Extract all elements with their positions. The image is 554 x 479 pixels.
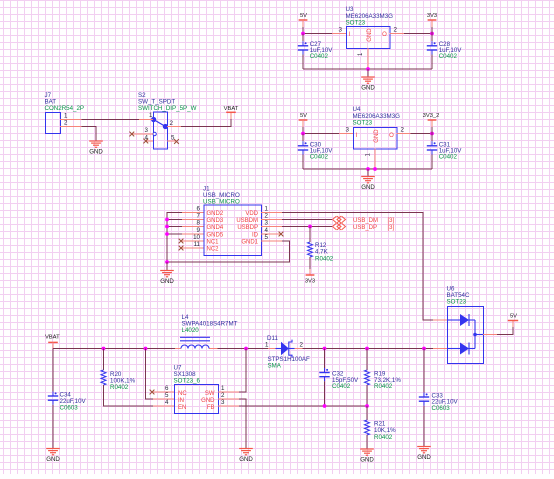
- svg-text:GND: GND: [46, 456, 60, 463]
- wire C31 up: [431, 134, 433, 142]
- R21 labels: [374, 421, 396, 441]
- wire J7 pin2 to gnd: [82, 127, 97, 142]
- resistor R19: [365, 370, 370, 385]
- svg-text:C0402: C0402: [310, 53, 329, 60]
- junction R19 top: [365, 347, 369, 351]
- U4 pin 2: [397, 127, 411, 134]
- C34 labels: [60, 392, 87, 412]
- svg-text:GND: GND: [417, 454, 431, 461]
- svg-text:GND2: GND2: [207, 211, 224, 217]
- capacitor C31: [427, 141, 437, 154]
- power port 5V (output): [508, 313, 518, 327]
- no-erc J1 NC2: [179, 246, 184, 251]
- wire R20 to EN: [104, 385, 154, 406]
- wire FB net: [239, 405, 367, 407]
- junction U4 pin1 rail: [373, 167, 377, 171]
- svg-text:2: 2: [170, 120, 174, 127]
- junction R12 tap: [308, 225, 312, 229]
- junction IN drop: [144, 347, 148, 351]
- junction C32 top: [323, 347, 327, 351]
- S2 pin 3 no-erc: [129, 127, 153, 136]
- wire C27 up: [302, 34, 304, 42]
- svg-text:2: 2: [401, 127, 405, 134]
- junction C33 top: [422, 347, 426, 351]
- J1 pin 10 (NC1): [182, 234, 220, 245]
- svg-text:R0402: R0402: [315, 255, 334, 262]
- svg-text:1: 1: [265, 206, 269, 213]
- wire USBDP to port: [282, 226, 332, 228]
- resistor R12: [308, 242, 313, 257]
- svg-text:GND: GND: [201, 398, 215, 404]
- wire R19 to FB: [366, 385, 368, 406]
- connector J1 USB_MICRO: [204, 205, 262, 256]
- junction U4 gnd stem: [366, 167, 370, 171]
- wire R21 to gnd: [366, 435, 368, 449]
- J1 labels: [203, 186, 240, 206]
- svg-text:3V3: 3V3: [305, 278, 315, 284]
- wire J7 pin1 to S2 pin1: [82, 119, 140, 121]
- wire C33 to gnd: [423, 406, 425, 447]
- wire J1 GND1 loop: [167, 241, 290, 262]
- wire C30 down: [302, 155, 304, 170]
- wire bus to ground: [166, 262, 168, 271]
- U7 labels: [174, 365, 201, 385]
- svg-text:C0603: C0603: [432, 405, 451, 412]
- C31 labels: [439, 142, 463, 161]
- connector J7: [46, 113, 61, 134]
- svg-text:C0402: C0402: [439, 53, 458, 60]
- J1 pin 9 (GND5): [182, 227, 224, 238]
- wire C34 drop: [52, 349, 54, 392]
- R12 labels: [315, 242, 334, 262]
- U4 pin 1 (gnd): [366, 149, 376, 170]
- power port 3V3_2: [423, 113, 440, 134]
- svg-text:R0402: R0402: [374, 383, 393, 390]
- junction bus pin8: [165, 225, 169, 229]
- J1 pin 5 (GND1): [241, 234, 282, 245]
- junction bus pin9: [165, 232, 169, 236]
- junction 5V/C27: [301, 32, 305, 36]
- D11 labels: [265, 335, 310, 370]
- svg-text:GND: GND: [361, 184, 375, 191]
- svg-text:O: O: [389, 133, 394, 139]
- svg-text:5: 5: [165, 392, 169, 399]
- svg-text:USB_DM: USB_DM: [353, 218, 378, 224]
- wire U4 gnd rail: [303, 168, 432, 170]
- wire U3 pin2 to 3V3: [404, 33, 432, 35]
- svg-text:5V: 5V: [510, 313, 517, 319]
- U7 pin 6 (NC) no-erc: [150, 385, 188, 397]
- svg-text:GND5: GND5: [207, 233, 224, 239]
- svg-text:9: 9: [197, 227, 201, 234]
- svg-text:R0402: R0402: [374, 434, 393, 441]
- svg-text:FB: FB: [207, 405, 215, 411]
- svg-text:NC: NC: [178, 391, 187, 397]
- ground U3: [361, 77, 375, 92]
- svg-text:EN: EN: [178, 405, 186, 411]
- U4 labels: [353, 106, 401, 127]
- junction SW node: [244, 347, 248, 351]
- svg-text:3: 3: [265, 220, 269, 227]
- svg-text:5: 5: [171, 135, 175, 142]
- junction C32/FB: [323, 404, 327, 408]
- wire U3 gnd rail: [303, 68, 432, 70]
- wire R19 up: [366, 349, 368, 371]
- svg-text:7: 7: [197, 213, 201, 220]
- svg-text:5: 5: [265, 234, 269, 241]
- S2 pin 2: [167, 120, 181, 127]
- wire R12 up: [309, 227, 311, 243]
- power port VBAT top: [224, 106, 239, 119]
- svg-text:SWITCH_DIP_5P_W: SWITCH_DIP_5P_W: [138, 105, 197, 112]
- junction 5V/C30: [301, 132, 305, 136]
- svg-text:3: 3: [221, 399, 225, 406]
- junction bus pin7: [165, 218, 169, 222]
- wire L4 to D11: [218, 348, 269, 350]
- U3 pin 1 (gnd): [358, 48, 368, 69]
- L4 labels: [182, 314, 238, 334]
- offsheet connector USB_DM: [333, 216, 395, 224]
- offsheet connector USB_DP: [333, 223, 395, 231]
- svg-text:10: 10: [193, 234, 200, 241]
- wire S2 pin2 to VBAT: [181, 119, 231, 127]
- svg-text:GND3: GND3: [207, 218, 224, 224]
- J7 pin 2: [60, 120, 82, 127]
- R19 labels: [374, 370, 401, 390]
- no-erc J1 ID: [279, 232, 284, 237]
- J1 pin 11 (NC2): [182, 241, 220, 252]
- ground U7: [239, 449, 253, 464]
- wire C27 down: [302, 55, 304, 70]
- regulator U3: [347, 27, 391, 49]
- junction 3V3/C28: [430, 32, 434, 36]
- junction gnd bus bottom: [165, 260, 169, 264]
- svg-text:1: 1: [265, 341, 269, 348]
- svg-text:SOT23: SOT23: [353, 120, 373, 127]
- wire D11 to output rail: [303, 348, 434, 350]
- U7 pin 4 (EN): [153, 399, 186, 411]
- S2 pin 5 no-erc: [167, 135, 179, 144]
- svg-text:VDD: VDD: [245, 211, 258, 217]
- wire C32 to FB: [324, 381, 326, 406]
- ground C34: [46, 449, 60, 464]
- wire to gnd U3: [367, 69, 369, 77]
- svg-text:8: 8: [197, 220, 201, 227]
- U3 pin 3: [332, 27, 346, 34]
- svg-text:2: 2: [394, 27, 398, 34]
- wire USBDM to port: [282, 219, 332, 221]
- wire U4 pin2 to 3V3_2: [411, 133, 433, 135]
- J1 pin 4 (ID): [252, 227, 282, 238]
- svg-text:SOT23_6: SOT23_6: [174, 378, 201, 385]
- S2 pin 1: [139, 112, 153, 120]
- junction R20: [102, 347, 106, 351]
- regulator U4: [354, 128, 398, 150]
- C28 labels: [439, 41, 463, 60]
- wire C31 down: [431, 155, 433, 170]
- svg-text:C0402: C0402: [332, 383, 351, 390]
- svg-text:5V: 5V: [300, 13, 307, 19]
- wire 5V to U4 pin3: [303, 127, 339, 134]
- J1 pin 6 (GND2): [182, 206, 224, 217]
- J1 pin 1 (VDD): [245, 206, 282, 217]
- capacitor C27: [298, 41, 308, 54]
- wire C34 to gnd: [52, 405, 54, 449]
- wire VDD to U6: [282, 213, 433, 321]
- wire C33 drop: [423, 349, 425, 393]
- svg-text:U3: U3: [346, 6, 354, 13]
- J1 pin 3 (USBDP): [237, 220, 282, 231]
- power port 5V (U3 in): [299, 13, 308, 27]
- ground U4: [361, 177, 375, 192]
- S2 pin 4 no-erc: [143, 135, 153, 144]
- svg-text:2: 2: [64, 120, 68, 127]
- svg-text:USBDP: USBDP: [237, 225, 258, 231]
- svg-text:U4: U4: [353, 106, 361, 113]
- svg-text:CON2R54_2P: CON2R54_2P: [45, 105, 85, 112]
- svg-text:6: 6: [165, 385, 169, 392]
- C32 labels: [332, 370, 359, 390]
- U3 pin 2: [390, 27, 405, 34]
- svg-text:3: 3: [346, 127, 350, 134]
- svg-text:D11: D11: [267, 335, 278, 342]
- C27 labels: [310, 41, 334, 60]
- svg-text:GND1: GND1: [241, 240, 258, 246]
- svg-text:GND: GND: [367, 28, 373, 42]
- svg-text:3V3: 3V3: [427, 13, 437, 19]
- U6 labels: [447, 286, 470, 306]
- U6 pin 1 (top anode): [433, 319, 447, 321]
- svg-text:SOT23: SOT23: [447, 299, 467, 306]
- dual diode U6 BAT54C: [447, 307, 484, 364]
- svg-text:2: 2: [221, 392, 225, 399]
- svg-text:GND: GND: [160, 278, 174, 285]
- svg-text:SMA: SMA: [268, 363, 282, 370]
- J7 labels: [45, 92, 85, 112]
- U7 pin 5 (IN): [153, 392, 184, 404]
- svg-text:1: 1: [149, 112, 153, 119]
- svg-text:1: 1: [64, 113, 68, 120]
- wire SW to rail: [239, 349, 246, 393]
- ground R21: [360, 449, 374, 464]
- svg-text:L4020: L4020: [182, 327, 200, 334]
- svg-text:2: 2: [265, 213, 269, 220]
- J1 pin 2 (USBDM): [236, 213, 282, 224]
- J7 pin 1: [60, 113, 82, 120]
- svg-text:NC1: NC1: [207, 240, 220, 246]
- junction R19/R21 FB: [365, 404, 369, 408]
- U3 labels: [346, 6, 394, 27]
- svg-text:[3]: [3]: [388, 218, 395, 224]
- J1 pin 7 (GND3): [182, 213, 224, 224]
- svg-text:3: 3: [339, 27, 343, 34]
- C33 labels: [432, 392, 459, 412]
- wire C28 up: [431, 34, 433, 42]
- capacitor C33: [419, 393, 429, 406]
- svg-text:5V: 5V: [300, 113, 307, 119]
- capacitor C28: [427, 41, 437, 54]
- wire U7 gnd: [239, 399, 246, 449]
- svg-text:USB_DP: USB_DP: [353, 225, 377, 231]
- svg-text:R0402: R0402: [110, 384, 129, 391]
- svg-text:4: 4: [165, 399, 169, 406]
- U7 pin 2 (GND): [201, 392, 239, 404]
- svg-text:1: 1: [221, 385, 225, 392]
- diode D11: [268, 340, 303, 358]
- power port 3V3: [427, 13, 437, 34]
- svg-text:4: 4: [265, 227, 269, 234]
- svg-text:2: 2: [300, 341, 304, 348]
- svg-text:VBAT: VBAT: [45, 334, 60, 340]
- svg-text:GND: GND: [239, 456, 253, 463]
- svg-text:GND: GND: [374, 129, 380, 143]
- ground J1: [160, 271, 174, 286]
- wire FB to R21: [366, 406, 368, 420]
- wire VBAT rail: [53, 348, 175, 350]
- U6 pin 3 (cathode out): [483, 334, 497, 336]
- U4 pin 3: [339, 127, 353, 134]
- S2 labels: [138, 92, 197, 112]
- svg-text:IN: IN: [178, 398, 184, 404]
- svg-text:C0402: C0402: [310, 154, 329, 161]
- wire J1 gnd bus: [167, 213, 182, 263]
- svg-text:11: 11: [194, 241, 201, 248]
- resistor R21: [365, 420, 370, 435]
- svg-text:SW: SW: [205, 391, 215, 397]
- svg-text:USBDM: USBDM: [236, 218, 258, 224]
- svg-text:3: 3: [145, 127, 149, 134]
- junction 3V3_2/C31: [430, 132, 434, 136]
- svg-text:GND: GND: [89, 149, 103, 156]
- wire C30 up: [302, 134, 304, 142]
- resistor R20: [101, 370, 106, 385]
- svg-text:C0402: C0402: [439, 154, 458, 161]
- J1 pin 8 (GND4): [182, 220, 224, 231]
- svg-text:3V3_2: 3V3_2: [423, 113, 440, 119]
- svg-text:6: 6: [197, 206, 201, 213]
- R20 labels: [110, 371, 136, 391]
- power port 5V (U4 in): [299, 113, 308, 127]
- C30 labels: [310, 142, 334, 161]
- svg-text:USB_MICRO: USB_MICRO: [203, 199, 240, 206]
- power port VBAT (rail): [45, 334, 60, 348]
- svg-text:C0603: C0603: [60, 405, 79, 412]
- capacitor C32: [319, 368, 329, 381]
- ground J7: [89, 141, 103, 156]
- svg-text:GND4: GND4: [207, 225, 224, 231]
- wire R12 down: [309, 257, 311, 269]
- U7 pin 1 (SW): [205, 385, 239, 397]
- svg-text:GND: GND: [361, 85, 375, 92]
- svg-text:[3]: [3]: [388, 225, 395, 231]
- svg-text:O: O: [382, 32, 387, 38]
- regulator U7 SX1308: [175, 385, 219, 414]
- switch S2: [151, 112, 168, 149]
- U6 pin 2 (bottom anode): [433, 348, 447, 350]
- wire R20 up: [103, 349, 105, 371]
- wire C28 down: [431, 55, 433, 70]
- wire C32 drop: [324, 349, 326, 369]
- svg-text:ID: ID: [252, 233, 259, 239]
- no-erc J1 NC1: [179, 239, 184, 244]
- power port 3V3 (R12): [305, 269, 315, 284]
- wire U6 out to 5V: [497, 327, 513, 335]
- svg-text:SOT23: SOT23: [346, 20, 366, 27]
- wire rail to IN: [146, 349, 154, 400]
- svg-text:GND: GND: [360, 457, 374, 464]
- capacitor C30: [298, 141, 308, 154]
- inductor L4: [175, 337, 218, 348]
- capacitor C34: [48, 392, 58, 405]
- wire 5V to U3 pin3: [303, 27, 332, 34]
- ground C33: [417, 447, 431, 462]
- svg-text:NC2: NC2: [207, 247, 220, 253]
- junction U3 gnd: [366, 67, 370, 71]
- svg-text:VBAT: VBAT: [224, 106, 239, 112]
- U7 pin 3 (FB): [207, 399, 239, 411]
- wire to gnd U4: [367, 169, 369, 177]
